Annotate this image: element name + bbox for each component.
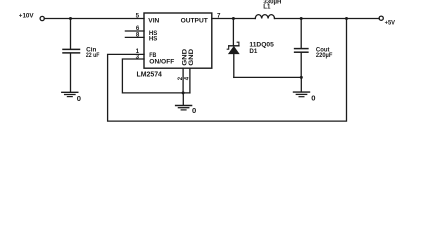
node GND pins junction (182, 91, 185, 94)
wire input rail from +10V to VIN pin 5 (44, 18, 144, 20)
svg-text:+10V: +10V (19, 13, 35, 20)
svg-text:GND: GND (188, 48, 195, 66)
ground symbol 0 (below Cin) (62, 92, 81, 103)
svg-text:5: 5 (136, 12, 140, 19)
terminal +10V (40, 16, 44, 20)
svg-text:HS: HS (149, 36, 158, 43)
wire GND pin 2 lead (182, 68, 184, 93)
IC U1 LM2574 body (144, 13, 212, 68)
wire output rail pin 7 to +5V (212, 18, 256, 20)
diode D1 11DQ05 (Schottky, cathode up) (227, 42, 239, 77)
node ground return / Cout junction (300, 76, 303, 79)
svg-text:L1: L1 (263, 4, 271, 11)
svg-text:ON/OFF: ON/OFF (149, 58, 174, 65)
value label Cout 220uF (316, 46, 333, 59)
svg-text:VIN: VIN (148, 17, 159, 24)
inductor L1 coil (255, 15, 274, 19)
ground symbol 0 (below IC) (176, 106, 197, 115)
svg-text:OUTPUT: OUTPUT (181, 17, 208, 24)
wire output rail after L1 (275, 18, 380, 20)
ground symbol 0 (below Cout) (294, 92, 316, 103)
capacitor C1 Cin (63, 19, 80, 93)
pin 8 stub wire (125, 36, 144, 38)
svg-text:0: 0 (77, 94, 81, 103)
node input rail / Cin junction (69, 17, 72, 20)
wire GND pin 4 lead (189, 68, 191, 93)
svg-text:22 uF: 22 uF (86, 52, 100, 59)
svg-text:220µF: 220µF (316, 52, 333, 59)
wire ON/OFF pin 3 to ground bus (122, 59, 189, 93)
capacitor C2 Cout (295, 19, 308, 78)
wire ground return diode to Cout (234, 76, 301, 78)
pin 6 stub wire (125, 30, 144, 32)
svg-text:+5V: +5V (385, 19, 396, 26)
svg-text:D1: D1 (249, 48, 257, 55)
wire junction to ground symbol (182, 93, 184, 105)
terminal +5V (379, 16, 383, 20)
wire Cout junction to ground (300, 77, 302, 91)
svg-text:LM2574: LM2574 (137, 72, 163, 79)
wire feedback loop output to FB pin 1 (108, 19, 347, 122)
wire diode cathode lead (232, 19, 234, 45)
node output rail / feedback junction (345, 17, 348, 20)
value label Cin 22 uF (86, 47, 100, 60)
svg-text:0: 0 (192, 106, 196, 115)
node switch/diode junction (232, 17, 235, 20)
node output rail / Cout junction (300, 17, 303, 20)
svg-text:8: 8 (136, 32, 140, 39)
svg-text:0: 0 (311, 94, 315, 103)
